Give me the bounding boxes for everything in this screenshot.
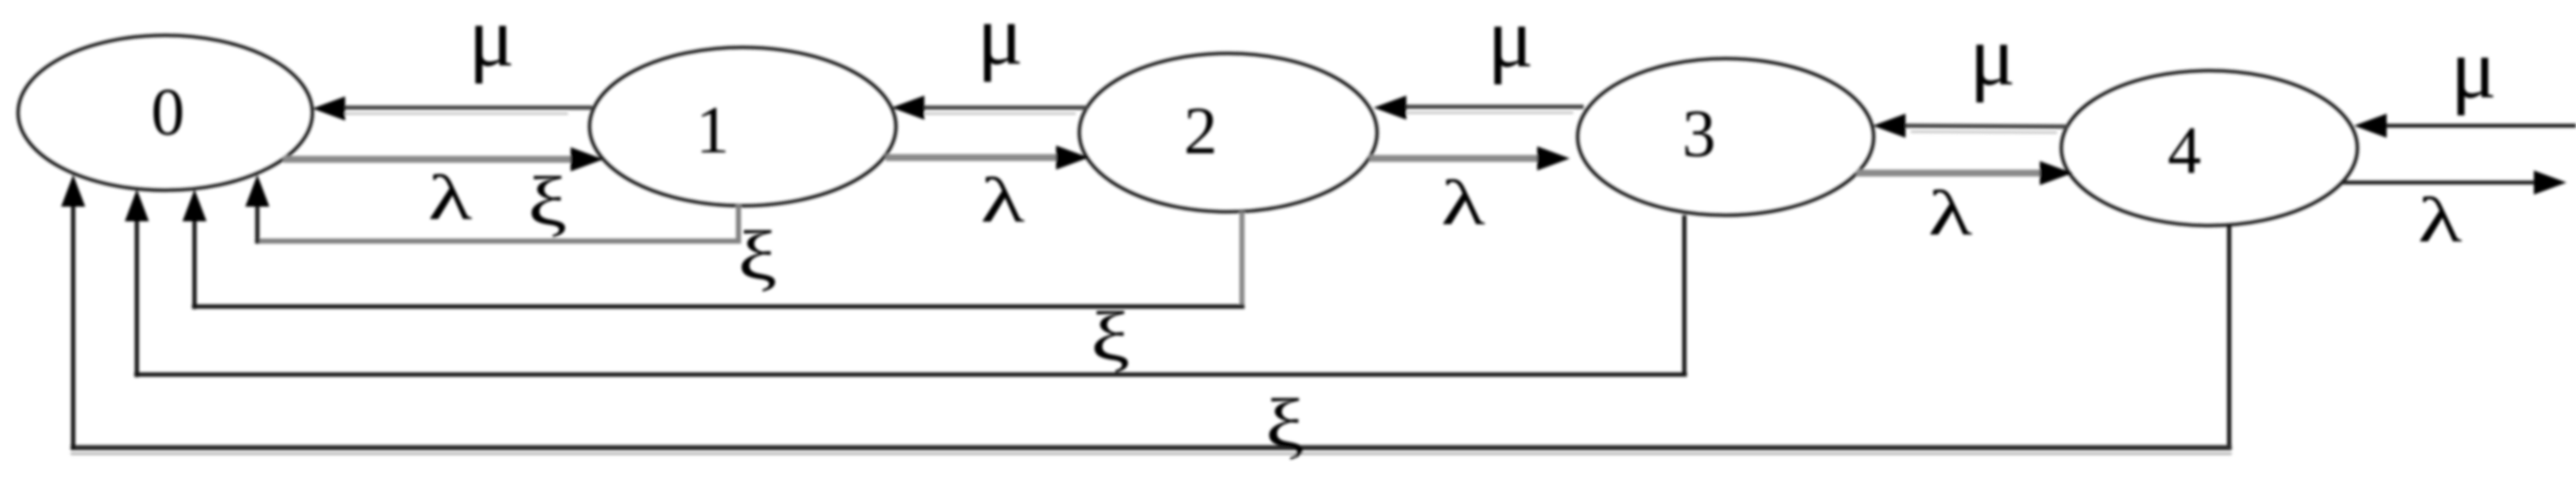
state ellipse 2 [1079, 53, 1377, 212]
wire xi return path from 3 to 0 [1683, 215, 1687, 375]
svg-text:μ: μ [1487, 0, 1534, 85]
svg-text:λ: λ [428, 162, 473, 232]
wire mu arrow 1 to 0 [336, 106, 592, 110]
svg-text:1: 1 [696, 92, 730, 167]
wire xi return path from 1 to 0 [736, 205, 741, 241]
svg-text:2: 2 [1184, 93, 1218, 168]
wire lambda arrow 3 to 4 [1856, 170, 2046, 177]
svg-text:μ: μ [468, 0, 515, 84]
wire xi return path from 2 to 0 [1239, 212, 1245, 307]
wire mu arrow 3 to 2 [1399, 105, 1584, 109]
svg-text:λ: λ [1928, 177, 1973, 248]
wire mu arrow 2 to 1 [917, 106, 1087, 110]
svg-text:μ: μ [1969, 8, 2016, 103]
wire xi return path from 4 to 0 [2227, 226, 2232, 448]
svg-text:λ: λ [980, 164, 1025, 235]
svg-text:ξ: ξ [528, 163, 567, 241]
svg-text:μ: μ [2450, 21, 2497, 116]
svg-text:μ: μ [977, 0, 1023, 83]
wire lambda arrow 0 to 1 [283, 156, 577, 163]
wire lambda arrow 2 to 3 [1369, 155, 1543, 162]
state ellipse 1 [590, 47, 896, 206]
svg-text:ξ: ξ [1090, 298, 1130, 376]
state ellipse 0 [18, 35, 312, 190]
svg-text:0: 0 [151, 74, 185, 149]
state ellipse 3 [1578, 59, 1874, 215]
wire lambda arrow 1 to 2 [886, 154, 1062, 161]
svg-text:λ: λ [1441, 167, 1486, 238]
svg-text:ξ: ξ [738, 217, 777, 295]
state ellipse 4 [2061, 71, 2357, 226]
svg-text:λ: λ [2418, 184, 2462, 255]
wire lambda arrow leaving 4 to right edge [2342, 181, 2541, 185]
svg-text:4: 4 [2168, 113, 2202, 188]
wire mu arrow 4 to 3 [1902, 126, 2067, 127]
svg-text:3: 3 [1683, 96, 1716, 170]
wire mu arrow entering 4 from right edge [2380, 124, 2576, 128]
svg-text:ξ: ξ [1265, 385, 1305, 463]
